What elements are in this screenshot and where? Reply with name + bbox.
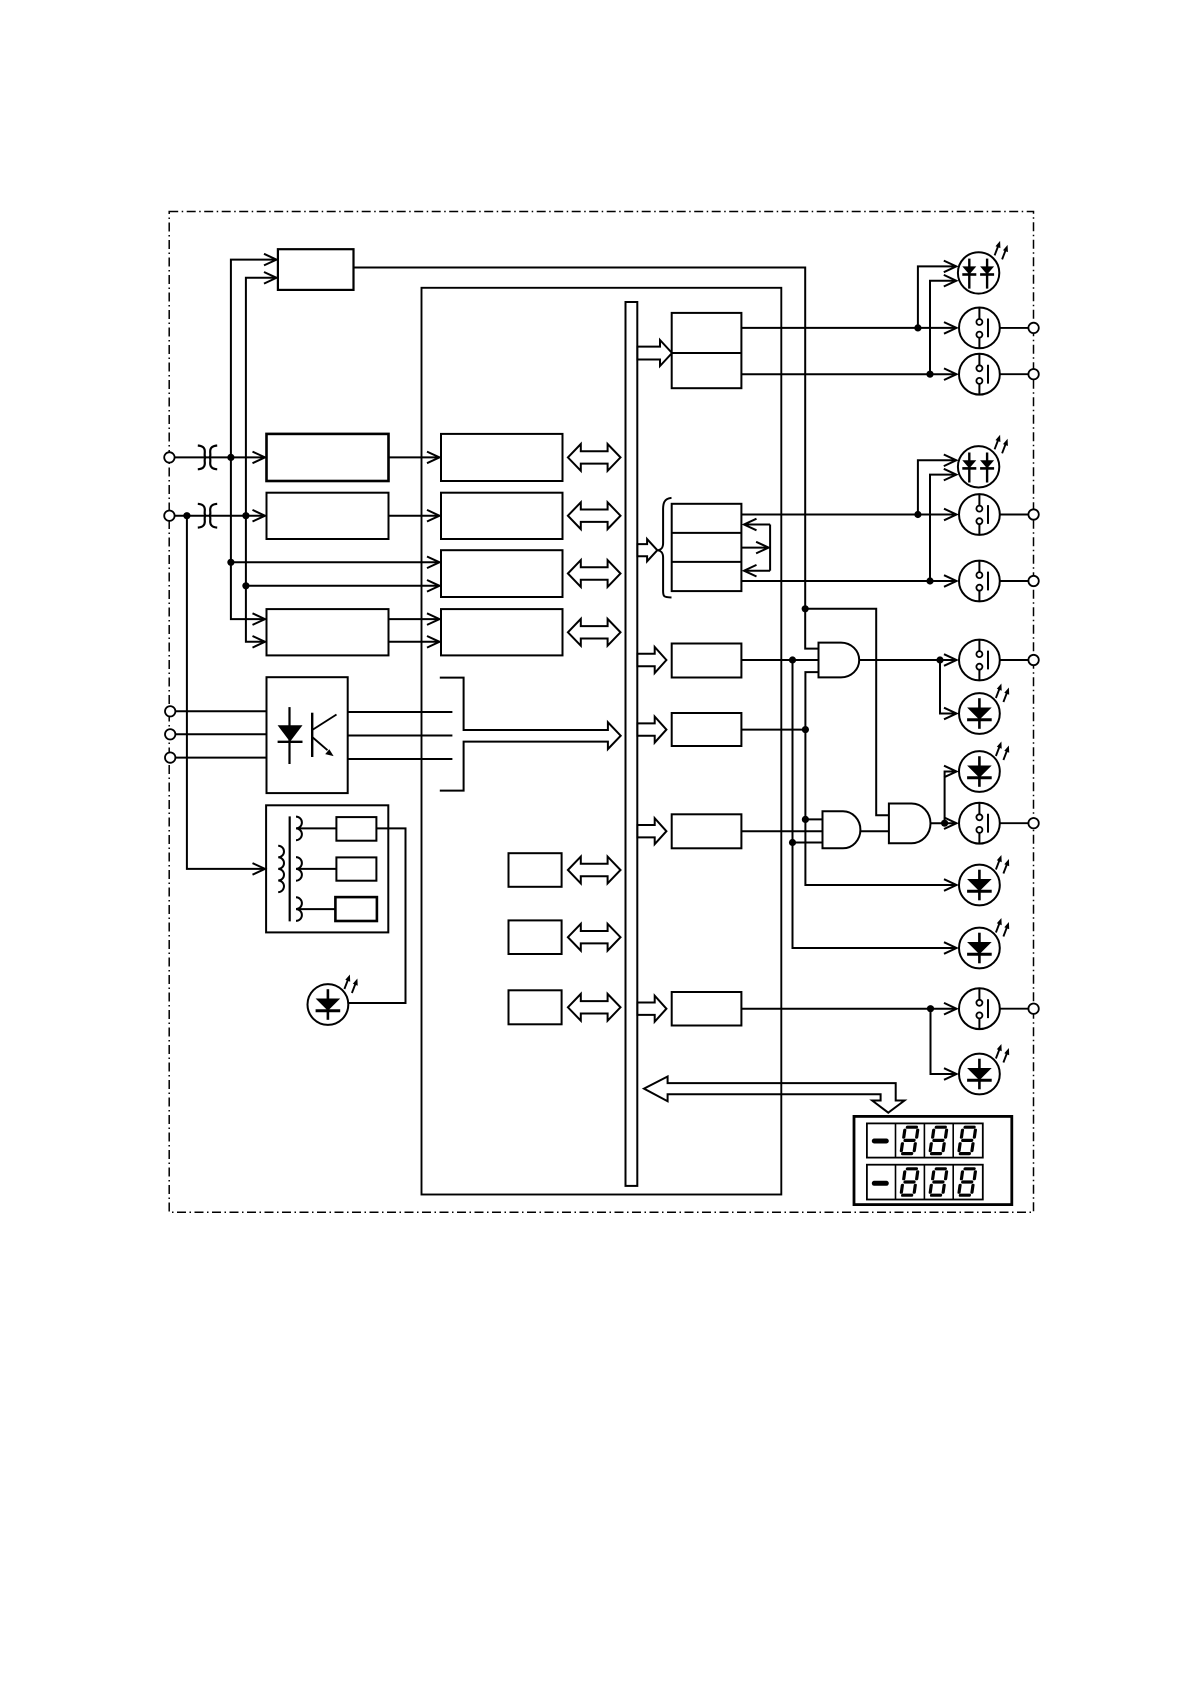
hollow arrow bus to logic block 1 [637, 647, 666, 673]
CT isolation symbol input 1 [198, 446, 217, 470]
feedback arrow into upper stage [744, 524, 770, 526]
junction dot net2/CT2 [242, 512, 249, 519]
wire: secondary 2 tap [299, 868, 336, 870]
wire: riser to U3 lower input and LED row6 [793, 660, 957, 948]
bus arrow row 4 [568, 619, 621, 646]
display 1 digit 2 [930, 1127, 947, 1153]
wire: top block output to AND network [354, 268, 819, 649]
wire: regulator 1 to power LED [348, 828, 405, 1003]
transformer secondary winding 1 [296, 817, 302, 841]
LED row6a [959, 742, 1009, 792]
wire: logic2 output net riser [805, 672, 956, 885]
signal group brace [658, 498, 672, 598]
feedback arrow into lower stage [744, 570, 770, 572]
wire: logic1 output into U1 [741, 659, 818, 661]
hollow arrow bus to logic block 3 [637, 818, 666, 844]
signal contact 2 [959, 561, 1000, 602]
regulator block 1 [336, 817, 376, 841]
trip contact 2 [959, 354, 1000, 395]
power LED indicator [308, 975, 358, 1025]
output terminal 1 [1028, 323, 1038, 333]
photocoupler block [267, 677, 348, 793]
wire: branch to signal LED upper input [918, 460, 956, 514]
wire: U3 output into U2 [860, 830, 888, 832]
phototransistor base bar [311, 713, 313, 757]
wire: contact7 to terminal [1000, 1008, 1029, 1010]
wire: contact2 to terminal [1000, 373, 1029, 375]
trip contact 1 [959, 308, 1000, 349]
bus arrow memory 1 [568, 857, 621, 884]
junction dot signal upper [914, 511, 921, 518]
input block 1 [267, 434, 389, 481]
junction dot net1/branch [227, 559, 234, 566]
middle stage output arrow [741, 547, 768, 549]
enclosure dash-dot border [169, 212, 1033, 1213]
input block 4 [267, 609, 389, 655]
wire: branch up to LED row6a [945, 772, 957, 824]
CT isolation symbol input 2 [198, 504, 217, 528]
memory block 2 [509, 920, 562, 954]
phototransistor emitter arrowhead [325, 749, 333, 756]
collector bracket and wide arrow into bus [440, 678, 621, 791]
display 2 digit 3 [959, 1169, 976, 1195]
photocoupler LED anode line [288, 707, 290, 764]
junction dot net2/branch [242, 582, 249, 589]
junction dot trip upper [914, 324, 921, 331]
AND gate U2 [889, 804, 931, 844]
display window 2 [867, 1165, 983, 1200]
measuring block 3 [441, 550, 563, 597]
display outer box [854, 1116, 1012, 1204]
wire: net1 riser up to top block [231, 260, 277, 458]
bus arrow memory 2 [568, 924, 621, 951]
output terminal 3 [1028, 509, 1038, 519]
wire: branch to signal LED lower input [930, 475, 956, 581]
logic block 1 [672, 644, 742, 678]
phototransistor emitter [312, 737, 327, 750]
top auxiliary block [278, 249, 354, 290]
trip block divider [672, 352, 742, 354]
logic block 2 [672, 713, 742, 746]
display 2 digit 1 [901, 1169, 918, 1195]
display window 2 cell dividers [896, 1165, 954, 1200]
wire: photocoupler output 3 [348, 758, 453, 760]
transformer core [289, 816, 291, 921]
junction dot trip lower [926, 371, 933, 378]
wire: block4 to measuring block 4 lower [389, 641, 440, 643]
transformer primary winding [278, 846, 284, 892]
hollow arrow bus to trip block [637, 340, 672, 366]
data bus [626, 302, 638, 1186]
hollow arrow bus to signal group [637, 539, 657, 561]
display 1 digit 3 [959, 1127, 976, 1153]
measuring block 4 [441, 609, 563, 655]
LED row7 [959, 1044, 1009, 1094]
output terminal 6 [1028, 818, 1038, 828]
LED row6c [959, 918, 1009, 968]
transformer secondary winding 3 [296, 897, 302, 921]
wire: U1 output to contact row5 [859, 659, 956, 661]
output terminal 5 [1028, 655, 1038, 665]
contact row5 [959, 640, 1000, 681]
junction dot logic2 [802, 726, 809, 733]
wire: photocoupler output 1 [348, 711, 453, 713]
wire: branch down to LED row7 [931, 1009, 957, 1074]
wire: block2 to measuring block 2 [389, 515, 440, 517]
trip output block [672, 313, 742, 388]
junction dot U3 upper [802, 816, 809, 823]
phototransistor collector [312, 715, 336, 731]
display 2 minus sign [874, 1181, 886, 1186]
photocoupler LED triangle [278, 725, 303, 742]
wire: U2 output to contact row6 [931, 822, 957, 824]
junction dot logic1/riser [789, 656, 796, 663]
junction dot U1 output [936, 656, 943, 663]
junction dot output4 [927, 1005, 934, 1012]
feedback riser [769, 525, 771, 571]
wire: net1 branch to measuring block 3 [231, 561, 440, 563]
display 1 minus sign [874, 1139, 886, 1144]
wire: net2 branch to measuring block 3 [246, 585, 440, 587]
wire: photocoupler output 2 [348, 735, 453, 737]
bus arrow row 3 [568, 560, 621, 587]
signal block divider 2 [672, 561, 742, 563]
bus arrow row 2 [568, 502, 621, 529]
LED row5 [959, 684, 1009, 734]
wire: block4 to measuring block 4 upper [389, 618, 440, 620]
wire: logic2 output [741, 729, 805, 731]
wire: net2 riser down to block 4 [246, 516, 265, 642]
wire: terminal1 to input block 1 [175, 456, 265, 458]
power supply transformer block [266, 805, 388, 932]
junction dot U2 output [941, 820, 948, 827]
signal dual LED [958, 435, 1008, 488]
memory block 1 [509, 853, 562, 887]
signal relay block (three stage) [672, 504, 742, 591]
output terminal 2 [1028, 369, 1038, 379]
contact row7 [959, 988, 1000, 1029]
display 2 digit 2 [930, 1169, 947, 1195]
output block 4 [672, 992, 742, 1026]
wire: branch to trip LED upper input [918, 266, 956, 328]
bus arrow row 1 [568, 444, 621, 471]
display window 1 cell dividers [896, 1123, 954, 1157]
wire: secondary 1 tap [299, 827, 336, 829]
binary input terminal 1 [165, 706, 175, 716]
microprocessor main block [422, 288, 782, 1195]
measuring block 2 [441, 493, 563, 539]
output terminal 4 [1028, 576, 1038, 586]
wire: trip upper output [741, 327, 956, 329]
wire: secondary 3 tap [299, 908, 335, 910]
logic block 3 [672, 814, 742, 848]
photocoupler LED cathode bar [278, 741, 303, 743]
LED row6b [959, 855, 1009, 905]
bus arrow memory 3 [568, 994, 621, 1021]
AC input terminal 2 [164, 511, 174, 521]
wire: terminal2 to input block 2 [175, 515, 265, 517]
wire: contact3 to terminal [1000, 514, 1029, 516]
junction dot terminal2 to transformer feed [183, 512, 190, 519]
wire: branch into U3 upper input [805, 818, 822, 820]
signal block divider 1 [672, 532, 742, 534]
hollow arrow bus to logic block 2 [637, 717, 666, 743]
junction dot net1/CT1 [227, 454, 234, 461]
wire: branch down to LED row5 [940, 660, 957, 714]
wire: binary input 2 [175, 733, 266, 735]
binary input terminal 2 [165, 729, 175, 739]
wire: contact4 to terminal [1000, 580, 1029, 582]
wire: block1 to measuring block 1 [389, 456, 440, 458]
contact row6 [959, 803, 1000, 844]
measuring block 1 [441, 434, 563, 481]
AND gate U3 [823, 811, 861, 848]
wire: contact5 to terminal [1000, 659, 1029, 661]
junction dot riser/U3 [789, 839, 796, 846]
trip dual LED [958, 241, 1008, 294]
memory block 3 [509, 990, 562, 1024]
wire: binary input 3 [175, 757, 266, 759]
display window 1 [867, 1123, 983, 1157]
junction dot on AND network riser [802, 605, 809, 612]
AC input terminal 1 [164, 452, 174, 462]
wide arrow bus to display [644, 1077, 905, 1113]
wire: riser branch into U3 [793, 842, 823, 844]
junction dot signal lower [926, 577, 933, 584]
wire: output block 4 to contact row7 [741, 1008, 956, 1010]
wire: transformer feed [187, 516, 265, 869]
transformer secondary winding 2 [296, 857, 302, 881]
wire: net2 riser up to top block [246, 278, 277, 516]
wire: signal upper output [741, 514, 956, 516]
wire: contact1 to terminal [1000, 327, 1029, 329]
binary input terminal 3 [165, 752, 175, 762]
wire: logic3 output into U3 [741, 830, 822, 832]
AND gate U1 [819, 643, 860, 678]
wire: signal lower output [741, 580, 956, 582]
input block 2 [267, 493, 389, 539]
regulator block 3 [335, 897, 377, 921]
wire: contact6 to terminal [1000, 822, 1029, 824]
wire: net1 riser down to block 4 [231, 457, 265, 619]
display 1 digit 1 [901, 1127, 918, 1153]
output terminal 7 [1028, 1004, 1038, 1014]
wire: trip lower output [741, 373, 956, 375]
wire: branch to AND gate U2 [805, 609, 889, 816]
signal contact 1 [959, 494, 1000, 535]
regulator block 2 [336, 857, 376, 880]
wire: binary input 1 [175, 710, 266, 712]
hollow arrow bus to output block 4 [637, 996, 666, 1022]
wire: branch to trip LED lower input [930, 281, 956, 375]
